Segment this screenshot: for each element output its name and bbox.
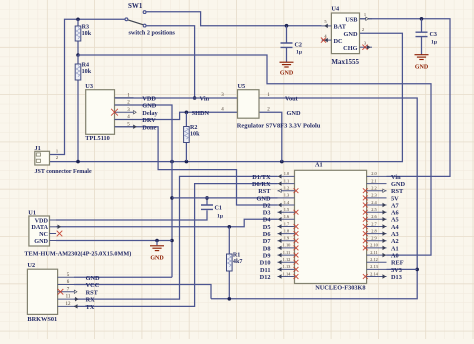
svg-text:1.5: 1.5 <box>284 207 290 212</box>
wire C3 top lead <box>421 19 423 32</box>
svg-text:SW1: SW1 <box>128 2 143 10</box>
svg-text:1.10: 1.10 <box>283 243 291 248</box>
A1 pin 2.8 A3 <box>367 233 387 235</box>
A1 pin 1.10 D8 <box>278 247 295 249</box>
A1 pin 2.4 A7 <box>367 204 387 206</box>
A1 pin 2.9 A2 <box>367 240 387 242</box>
ground C3 <box>415 54 429 56</box>
A1 pin 2.0 Vin <box>367 175 387 177</box>
wire U1 VDD to C1 bottom <box>56 210 207 220</box>
A1 pin 2.5 A6 <box>367 211 387 213</box>
svg-text:GND: GND <box>150 256 164 262</box>
svg-text:2.6: 2.6 <box>371 214 377 219</box>
svg-text:U4: U4 <box>331 5 340 12</box>
wire R1 stubs <box>228 227 230 254</box>
wire U3 VDD / U5 Vin row <box>115 97 238 99</box>
resistor R3 <box>75 26 81 41</box>
wire switch throw 1 to U4 BAT <box>146 12 321 26</box>
wire U2 RX to A1 D1/TX <box>74 176 278 299</box>
svg-text:GND: GND <box>415 65 429 71</box>
svg-text:D9: D9 <box>263 253 271 260</box>
wire C3 bottom lead <box>421 37 423 55</box>
A1 pin 2.7 A4 <box>367 226 387 228</box>
svg-text:U1: U1 <box>28 210 36 217</box>
svg-text:1.2: 1.2 <box>284 186 290 191</box>
svg-text:R3: R3 <box>82 25 89 31</box>
svg-text:TEM-HUM-AM2302(4P-25.0X15.0MM): TEM-HUM-AM2302(4P-25.0X15.0MM) <box>24 250 131 257</box>
wire U3 GND down left GND trunk <box>115 105 173 277</box>
wire C2 bottom lead <box>286 47 288 62</box>
svg-text:1.3: 1.3 <box>284 193 290 198</box>
U1 pin DATA <box>50 226 57 228</box>
svg-text:GND: GND <box>344 31 358 38</box>
svg-text:C3: C3 <box>430 32 437 38</box>
node GND trunk crossing A1 GND row <box>170 196 174 200</box>
svg-text:11: 11 <box>66 295 71 300</box>
wire A1 GND row <box>172 197 278 199</box>
wire U2 TX to A1 D0/RX <box>74 184 278 307</box>
svg-text:A3: A3 <box>391 231 399 238</box>
svg-text:2.12: 2.12 <box>370 257 378 262</box>
node GND symbol junction near U1 <box>155 239 159 243</box>
wire U1 GND row <box>56 240 172 242</box>
op-amp U3 TPL5110 body <box>86 90 115 135</box>
switch SW1 <box>125 18 128 21</box>
node divider tap junction <box>76 53 80 57</box>
svg-text:GND: GND <box>86 275 100 282</box>
capacitor C1 <box>201 205 213 209</box>
U2 TX arrow <box>75 305 78 308</box>
svg-text:1.13: 1.13 <box>283 264 291 269</box>
svg-text:VDD: VDD <box>142 95 156 102</box>
U3 pin 5 Done arrow <box>133 125 136 128</box>
svg-text:D7: D7 <box>263 238 271 245</box>
svg-text:Max1555: Max1555 <box>331 58 359 66</box>
svg-text:D11: D11 <box>260 267 271 274</box>
ground symbol near U1 <box>156 241 158 246</box>
svg-text:R2: R2 <box>190 125 197 131</box>
wire U2 GND row <box>74 276 172 278</box>
A1 pin 2.1 GND <box>367 183 387 185</box>
U3 pin 4 DRV <box>115 119 134 121</box>
connector J1 JST body <box>35 151 50 165</box>
U2 pin 7 RST <box>58 291 74 293</box>
svg-text:2.11: 2.11 <box>370 250 378 255</box>
A1 pin 2.13 3V3 <box>367 268 387 270</box>
U1 pin GND <box>50 240 57 242</box>
wire switch throw 2 down to Vin row <box>146 26 194 98</box>
module U2 BRKWS01 body <box>27 269 57 314</box>
U3 pin 5 Done <box>115 126 134 128</box>
svg-text:Vin: Vin <box>391 174 401 181</box>
svg-text:GND: GND <box>280 71 294 77</box>
svg-text:1µ: 1µ <box>217 214 224 220</box>
U3 pin 1 VDD <box>115 97 134 99</box>
regulator U5 body <box>238 90 260 119</box>
svg-text:U3: U3 <box>85 83 93 90</box>
sensor U1 AM2302 body <box>29 216 50 246</box>
mcu A1 NUCLEO-F303K8 body <box>295 170 367 283</box>
svg-text:D1/TX: D1/TX <box>252 174 271 181</box>
svg-text:1.14: 1.14 <box>283 271 291 276</box>
svg-text:BAT: BAT <box>334 24 347 31</box>
U2 RST no-connect <box>74 290 77 293</box>
svg-text:1.1: 1.1 <box>284 178 290 183</box>
A1 pin 1.8 D6 <box>278 233 295 235</box>
svg-text:SHDN: SHDN <box>192 110 210 117</box>
wire GND rail from J1 pin2 to U4 GND <box>50 33 403 161</box>
wire C2 top lead <box>286 26 288 43</box>
svg-text:2.8: 2.8 <box>371 228 377 233</box>
A1 pin 1.1 D0/RX <box>278 183 295 185</box>
svg-text:RST: RST <box>86 289 99 296</box>
node GND rail junctions <box>76 160 80 164</box>
A1 pin 2.2 RST <box>367 190 387 192</box>
svg-text:1.4: 1.4 <box>284 200 290 205</box>
node C1 top junction <box>205 196 209 200</box>
svg-text:GND: GND <box>257 195 271 202</box>
svg-text:1.6: 1.6 <box>284 214 290 219</box>
svg-text:D5: D5 <box>263 224 271 231</box>
wire U1 DATA to A1 D4 <box>56 219 278 227</box>
svg-text:2.1: 2.1 <box>371 178 377 183</box>
svg-text:NUCLEO-F303K8: NUCLEO-F303K8 <box>315 284 365 291</box>
svg-text:5V: 5V <box>391 195 399 202</box>
U4 pin 4 DC with no-connect <box>322 39 332 41</box>
svg-text:J1: J1 <box>35 145 41 152</box>
svg-text:Regulator S7V8F3 3.3V Pololu: Regulator S7V8F3 3.3V Pololu <box>237 123 321 130</box>
svg-text:RST: RST <box>391 188 404 195</box>
svg-text:1.8: 1.8 <box>284 228 290 233</box>
svg-text:GND: GND <box>391 181 405 188</box>
svg-text:D10: D10 <box>260 260 271 267</box>
node GND trunk junction at U1 GND row <box>170 239 174 243</box>
A1 pin 1.5 D3 <box>278 211 295 213</box>
ground C2 <box>280 61 294 63</box>
node C2 junction <box>285 24 289 28</box>
svg-text:BRKWS01: BRKWS01 <box>27 316 57 323</box>
svg-text:3V3: 3V3 <box>391 267 402 274</box>
svg-text:Vin: Vin <box>200 96 210 103</box>
resistor R4 <box>75 64 81 80</box>
svg-text:2.4: 2.4 <box>371 200 377 205</box>
svg-text:2.5: 2.5 <box>371 207 377 212</box>
svg-text:10k: 10k <box>82 31 92 37</box>
svg-text:D0/RX: D0/RX <box>252 181 271 188</box>
svg-text:1: 1 <box>56 149 58 154</box>
svg-text:2.3: 2.3 <box>371 193 377 198</box>
wire J1 pin1 to switch common <box>50 19 125 154</box>
svg-text:Delay: Delay <box>142 110 158 117</box>
svg-text:GND: GND <box>142 103 156 110</box>
svg-text:switch 2 positions: switch 2 positions <box>129 30 176 37</box>
A1 pin 1.9 D7 <box>278 240 295 242</box>
wire U3 DRV to U5 SHDN <box>115 112 238 119</box>
A1 pin 1.4 D2 <box>278 204 295 206</box>
svg-text:D6: D6 <box>263 231 271 238</box>
wire A1 3V3 pin to 3V3 net <box>387 268 418 270</box>
U3 pin 2 GND <box>115 104 134 106</box>
svg-text:A6: A6 <box>391 210 399 217</box>
svg-text:DRV: DRV <box>142 117 156 124</box>
wire U5 Vout 3V3 net <box>211 98 417 299</box>
svg-text:JST connector Female: JST connector Female <box>35 169 92 175</box>
wire R2 stubs <box>185 112 187 126</box>
svg-text:A1: A1 <box>315 162 323 169</box>
wire U4 USB 5V net to A1 Vin <box>360 19 451 177</box>
svg-text:2.2: 2.2 <box>371 186 377 191</box>
svg-text:DC: DC <box>334 38 344 45</box>
svg-text:A1: A1 <box>391 245 399 252</box>
A1 pin 2.11 A0 <box>367 254 387 256</box>
svg-text:2: 2 <box>56 155 58 160</box>
svg-text:C2: C2 <box>295 43 302 49</box>
svg-text:REF: REF <box>391 260 404 267</box>
svg-text:U5: U5 <box>238 83 246 90</box>
U4 pin 3 CHG with no-connect <box>360 46 373 48</box>
node C3 junction <box>420 17 424 21</box>
node R2 top junction <box>185 111 189 115</box>
A1 pin 1.14 D12 <box>278 276 295 278</box>
A1 pin 1.3 GND <box>278 197 295 199</box>
A1 pin 2.6 A5 <box>367 218 387 220</box>
svg-text:2.9: 2.9 <box>371 236 377 241</box>
A1 pin 1.0 D1/TX <box>278 175 295 177</box>
A1 pin 1.6 D4 <box>278 218 295 220</box>
svg-text:CHG: CHG <box>343 45 357 52</box>
svg-text:D13: D13 <box>391 274 402 281</box>
svg-text:NC: NC <box>39 231 48 238</box>
svg-text:Vout: Vout <box>285 96 299 103</box>
svg-text:1.12: 1.12 <box>283 257 291 262</box>
svg-text:USB: USB <box>345 16 358 23</box>
U4 pin 5 BAT <box>322 25 332 27</box>
node Vin junction <box>193 96 197 100</box>
svg-text:2: 2 <box>362 27 364 32</box>
resistor R2 <box>184 127 190 143</box>
U2 pin 12 TX <box>58 305 74 307</box>
svg-text:12: 12 <box>66 302 72 307</box>
svg-text:2.0: 2.0 <box>371 171 377 176</box>
svg-text:C1: C1 <box>215 206 222 212</box>
svg-text:TX: TX <box>86 304 95 311</box>
svg-text:A5: A5 <box>391 217 399 224</box>
capacitor C2 <box>281 43 293 47</box>
A1 pin 1.2 RST <box>278 190 295 192</box>
A1 pin 2.10 A1 <box>367 247 387 249</box>
svg-text:1.7: 1.7 <box>284 221 290 226</box>
wire R4 stubs <box>77 55 79 64</box>
wire U5 GND pin to GND rail <box>259 112 282 161</box>
svg-text:GND: GND <box>287 110 301 117</box>
svg-text:1.0: 1.0 <box>284 171 290 176</box>
A1 pin 2.12 REF <box>367 261 387 263</box>
U2 pin 6 VCC <box>58 284 74 286</box>
U3 pin 3 Delay arrow and no-connect <box>133 111 136 114</box>
U1 pin NC <box>50 233 57 235</box>
A1 pin 1.11 D9 <box>278 254 295 256</box>
svg-text:D4: D4 <box>263 217 272 224</box>
svg-text:R1: R1 <box>233 253 240 259</box>
A1 pin 1.13 D11 <box>278 268 295 270</box>
svg-text:R4: R4 <box>82 63 89 69</box>
U3 pin 3 Delay <box>115 111 134 113</box>
svg-text:1µ: 1µ <box>296 50 303 56</box>
svg-text:10k: 10k <box>190 132 200 138</box>
svg-text:D12: D12 <box>260 274 271 281</box>
wire C1 top to A1 GND row <box>206 198 208 205</box>
svg-text:RX: RX <box>86 297 96 304</box>
resistor R1 <box>227 254 233 271</box>
svg-text:U2: U2 <box>27 262 35 269</box>
node battery plus junction at R3 top <box>76 18 80 22</box>
wire U3 Done to A1 D2 <box>115 127 278 205</box>
svg-text:VCC: VCC <box>86 282 100 289</box>
U2 pin 11 RX <box>58 298 74 300</box>
svg-text:TPL5110: TPL5110 <box>85 135 110 142</box>
U1 pin VDD <box>50 219 57 221</box>
svg-text:1.9: 1.9 <box>284 236 290 241</box>
svg-text:A4: A4 <box>391 224 400 231</box>
svg-text:D2: D2 <box>263 202 271 209</box>
svg-text:A0: A0 <box>391 253 399 260</box>
U2 RX arrow <box>75 297 78 300</box>
U4 pin 1 USB <box>360 18 373 20</box>
A1 pin 2.14 D13 <box>367 276 387 278</box>
svg-text:D8: D8 <box>263 245 271 252</box>
svg-text:A7: A7 <box>391 202 399 209</box>
svg-text:1: 1 <box>364 12 366 17</box>
svg-text:10k: 10k <box>82 69 92 75</box>
svg-text:1.11: 1.11 <box>283 250 291 255</box>
wire R3 stubs <box>77 19 79 26</box>
svg-text:2.13: 2.13 <box>370 264 378 269</box>
svg-text:2.14: 2.14 <box>370 271 378 276</box>
charger U4 Max1555 body <box>331 13 359 54</box>
svg-text:4k7: 4k7 <box>233 259 242 265</box>
A1 pin 1.7 D5 <box>278 226 295 228</box>
svg-text:D3: D3 <box>263 210 271 217</box>
wire U2 VCC to 3V3 rail <box>74 285 211 299</box>
svg-text:2.10: 2.10 <box>370 243 378 248</box>
svg-text:Done: Done <box>142 124 156 131</box>
U2 pin 5 GND <box>58 276 74 278</box>
svg-text:A2: A2 <box>391 238 399 245</box>
U1 DATA arrow <box>58 225 61 228</box>
wire divider tap to A1 A0 <box>78 55 431 255</box>
svg-text:RST: RST <box>258 188 271 195</box>
svg-text:2.7: 2.7 <box>371 221 377 226</box>
A1 pin 1.12 D10 <box>278 261 295 263</box>
capacitor C3 <box>416 32 428 36</box>
svg-text:GND: GND <box>34 238 48 245</box>
A1 pin 2.3 5V <box>367 197 387 199</box>
svg-text:1µ: 1µ <box>431 40 438 46</box>
U1 NC no-connect <box>57 231 63 237</box>
node R1 top junction <box>228 225 232 229</box>
node 3V3 junctions <box>415 268 419 272</box>
